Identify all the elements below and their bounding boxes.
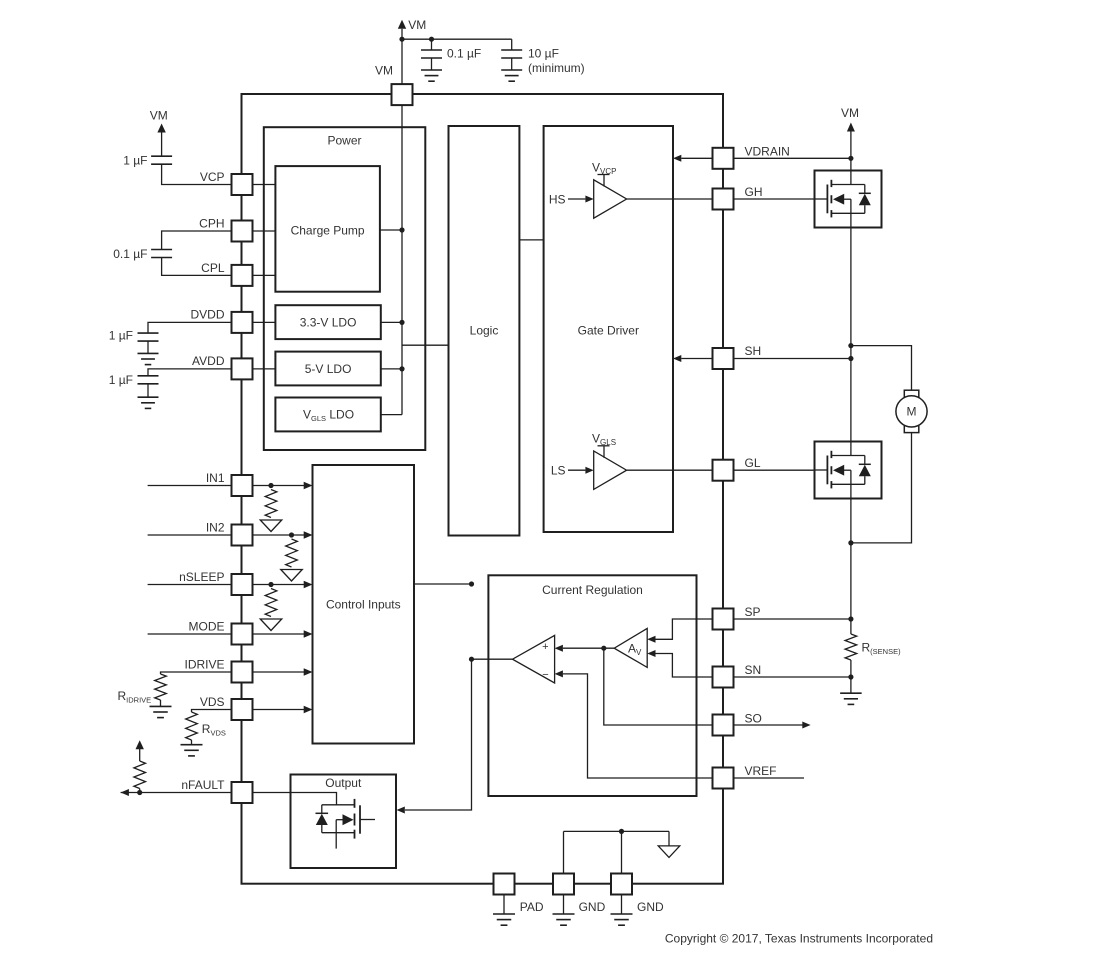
buffer LS driver: [594, 451, 627, 489]
resistor IN2 pulldown: [286, 539, 298, 567]
svg-text:Control Inputs: Control Inputs: [326, 598, 401, 612]
wire SN to sense resistor: [734, 676, 851, 678]
wire IN1 external lead: [148, 485, 231, 487]
ground (open) IN2 pulldown: [281, 570, 303, 582]
svg-text:SH: SH: [745, 344, 762, 358]
arrow VDRAIN into Gate Driver: [673, 155, 681, 162]
pin VM: [392, 84, 413, 105]
wire RIDRIVE to ground: [160, 700, 162, 706]
resistor RSENSE: [845, 634, 857, 660]
block Current Regulation: [488, 575, 696, 796]
wire 5-V LDO output to VM rail: [381, 368, 402, 370]
junction dot motor branch: [848, 343, 853, 348]
arrow SO output: [802, 722, 810, 729]
svg-text:GND: GND: [637, 900, 664, 914]
svg-text:Gate Driver: Gate Driver: [578, 324, 639, 338]
pin VDRAIN: [713, 148, 734, 169]
arrow MODE into Control Inputs: [304, 630, 313, 637]
pin GND (right): [611, 874, 632, 895]
wire AVDD cap to ground: [147, 384, 149, 397]
wire MODE external lead: [148, 633, 231, 635]
arrow VDS into Control Inputs: [304, 706, 313, 713]
svg-text:VM: VM: [408, 18, 426, 32]
arrow AV bottom input: [647, 650, 655, 657]
ground below AVDD cap: [138, 396, 159, 398]
wire GH to FET1 gate: [734, 198, 815, 200]
wire VDS to RVDS: [192, 710, 232, 713]
wire VGLS LDO output to VM rail: [381, 414, 402, 416]
block 3.3-V LDO: [275, 305, 380, 339]
svg-text:PAD: PAD: [520, 900, 544, 914]
arrow into Output block: [397, 807, 405, 814]
wire RSENSE to SN net: [850, 660, 852, 677]
arrow IN2 into Control Inputs: [304, 531, 313, 538]
wire logic to Output block: [405, 659, 472, 810]
svg-text:Power: Power: [327, 134, 361, 148]
ground below 0.1 uF cap: [421, 69, 442, 71]
wire Q2 source to sense net: [850, 499, 852, 620]
svg-text:(minimum): (minimum): [528, 61, 585, 75]
pin SH: [713, 348, 734, 369]
wire VDS pin to Control Inputs: [253, 709, 305, 711]
wire SH to half-bridge: [734, 358, 851, 360]
junction dot comparator output: [469, 657, 474, 662]
wire SH net to Q2 drain: [850, 359, 852, 442]
svg-text:1 µF: 1 µF: [109, 373, 133, 387]
motor M: [904, 390, 919, 397]
wire IN2 pin to Control Inputs: [253, 534, 305, 536]
svg-text:nFAULT: nFAULT: [181, 778, 225, 792]
svg-text:10 µF: 10 µF: [528, 47, 559, 61]
wire IN1 pin to Control Inputs: [253, 485, 305, 487]
wire CPH to flying cap: [162, 231, 231, 250]
capacitor 1 uF (AVDD): [138, 375, 159, 377]
svg-text:GH: GH: [745, 185, 763, 199]
pin VREF: [713, 768, 734, 789]
svg-text:IN1: IN1: [206, 471, 225, 485]
svg-text:VCP: VCP: [200, 170, 225, 184]
wire VM pin to top rail: [401, 29, 403, 84]
svg-text:GL: GL: [745, 456, 761, 470]
wire VGLS rail bar and stem: [598, 445, 610, 447]
pin GL: [713, 460, 734, 481]
wire SP to AV top input: [656, 619, 713, 639]
pin nSLEEP: [232, 574, 253, 595]
wire 3.3-V LDO output to VM rail: [381, 321, 402, 323]
pin CPH: [232, 221, 253, 242]
junction dot 3.3-V LDO output: [399, 320, 404, 325]
transistor Q2 low-side NMOS: [815, 442, 882, 499]
block Gate Driver: [544, 126, 673, 532]
arrow HS input: [585, 196, 593, 203]
svg-text:GND: GND: [579, 900, 606, 914]
junction dot SP net: [848, 616, 853, 621]
wire motor bottom branch: [851, 433, 912, 543]
svg-text:HS: HS: [549, 193, 566, 207]
arrow LS input: [585, 467, 593, 474]
node VM (VCP pull-up arrow): [157, 124, 165, 133]
junction dot IN1 pulldown: [268, 483, 273, 488]
svg-text:0.1 µF: 0.1 µF: [447, 47, 481, 61]
block Power: [264, 127, 426, 450]
svg-text:VGLS LDO: VGLS LDO: [303, 408, 354, 424]
wire GND left to ground: [563, 895, 565, 914]
svg-text:VDS: VDS: [200, 695, 225, 709]
node VM (top supply arrow): [398, 20, 406, 29]
pin CPL: [232, 265, 253, 286]
svg-text:LS: LS: [551, 464, 566, 478]
arrow nFAULT output (left): [121, 789, 129, 796]
resistor nFAULT pull-up: [134, 761, 146, 789]
svg-text:Charge Pump: Charge Pump: [291, 224, 365, 238]
junction dot SO takeoff: [601, 646, 606, 651]
ground below RIDRIVE: [150, 705, 172, 707]
pin PAD: [494, 874, 515, 895]
junction dot control bus: [469, 581, 474, 586]
ground below GND left: [553, 913, 575, 915]
pin SN: [713, 667, 734, 688]
wire AV output to comparator plus: [563, 647, 614, 649]
wire VM to VDRAIN net: [850, 132, 852, 159]
capacitor 10 uF (VM bulk): [511, 39, 513, 50]
wire Control Inputs to logic bus: [414, 583, 472, 585]
pin SP: [713, 609, 734, 630]
junction dot nFAULT: [137, 790, 142, 795]
svg-text:SO: SO: [745, 712, 762, 726]
block 5-V LDO: [275, 352, 380, 386]
junction dot IN2 pulldown: [289, 532, 294, 537]
wire IN2 external lead: [148, 534, 231, 536]
pin SO: [713, 715, 734, 736]
wire SH to gate driver: [681, 358, 712, 360]
pin IDRIVE: [232, 662, 253, 683]
svg-text:VREF: VREF: [745, 764, 777, 778]
svg-text:VM: VM: [841, 106, 859, 120]
svg-text:Current Regulation: Current Regulation: [542, 583, 643, 597]
wire VVCP rail bar and stem: [598, 174, 610, 176]
wire SO external: [734, 724, 803, 726]
wire VREF external lead: [734, 777, 805, 779]
junction dot 5-V LDO output: [399, 366, 404, 371]
resistor RVDS: [186, 712, 198, 740]
svg-text:SN: SN: [745, 663, 762, 677]
wire GND1 to internal ground rail: [563, 831, 565, 874]
wire SN to AV bottom input: [656, 654, 713, 678]
junction dot nSLEEP pulldown: [268, 582, 273, 587]
transistor Output FET (open-drain): [316, 799, 376, 849]
svg-text:VDRAIN: VDRAIN: [745, 144, 790, 158]
arrow IDRIVE into Control Inputs: [304, 668, 313, 675]
wire nFAULT external lead: [121, 792, 231, 794]
block Output: [291, 775, 397, 869]
wire CPL pin to Charge Pump: [253, 274, 276, 276]
svg-text:SP: SP: [745, 605, 761, 619]
svg-text:1 µF: 1 µF: [109, 329, 133, 343]
svg-text:Output: Output: [325, 776, 362, 790]
svg-text:−: −: [542, 669, 548, 681]
pin GND (left): [553, 874, 574, 895]
wire DVDD pin to 3.3-V LDO: [253, 321, 276, 323]
arrow SH into Gate Driver: [673, 355, 681, 362]
pin VCP: [232, 174, 253, 195]
wire comparator output to logic bus: [472, 658, 513, 660]
svg-text:+: +: [542, 641, 548, 653]
chip outer boundary box: [242, 94, 724, 884]
wire top VM rail horizontal: [402, 38, 512, 40]
wire SP to sense resistor: [734, 618, 851, 620]
wire charge pump output to VM rail: [380, 229, 402, 231]
wire power rail to Logic: [402, 344, 449, 346]
svg-text:Logic: Logic: [470, 324, 499, 338]
wire nFAULT pin to Output FET: [253, 793, 337, 805]
capacitor 0.1 uF (VM bypass): [431, 39, 433, 50]
arrow AV top input: [647, 636, 655, 643]
wire DVDD cap to ground: [147, 341, 149, 353]
junction dot SH net: [848, 356, 853, 361]
resistor IN1 pulldown: [265, 490, 277, 518]
pin VDS: [232, 699, 253, 720]
junction dot SN net: [848, 674, 853, 679]
arrow nSLEEP into Control Inputs: [304, 581, 313, 588]
junction dot motor bottom: [848, 540, 853, 545]
pin MODE: [232, 624, 253, 645]
wire GND right to ground: [621, 895, 623, 914]
wire AVDD pin to 5-V LDO: [253, 368, 276, 370]
wire CPH pin to Charge Pump: [253, 230, 276, 232]
block Charge Pump: [275, 166, 380, 292]
op-amp current comparator: [513, 635, 555, 683]
wire motor top branch: [851, 346, 912, 391]
wire VREF to comparator minus: [563, 674, 713, 778]
ground (open) internal: [658, 846, 680, 858]
junction dot VDRAIN net: [848, 156, 853, 161]
wire SP net to RSENSE: [850, 619, 852, 634]
pin nFAULT: [232, 782, 253, 803]
resistor nSLEEP pulldown: [265, 589, 277, 617]
ground below 10 uF cap: [501, 69, 522, 71]
wire VM pin into chip (to power rail): [401, 105, 403, 415]
wire VDRAIN to gate driver: [681, 157, 712, 159]
junction dot VM rail at C1: [429, 37, 434, 42]
wire Q1 source to SH net: [850, 228, 852, 359]
capacitor 1 uF (DVDD): [138, 332, 159, 334]
svg-text:DVDD: DVDD: [190, 308, 224, 322]
transistor Q1 high-side NMOS: [815, 171, 882, 228]
wire DVDD to bypass cap: [148, 322, 231, 333]
pin IN1: [232, 475, 253, 496]
wire PAD to ground: [503, 895, 505, 914]
wire RVDS to ground: [191, 740, 193, 745]
block VGLS LDO: [275, 398, 380, 432]
wire RFAULT to nFAULT net: [139, 789, 141, 793]
buffer HS driver: [594, 180, 627, 218]
resistor RIDRIVE: [155, 674, 167, 700]
svg-text:IN2: IN2: [206, 521, 225, 535]
pin DVDD: [232, 312, 253, 333]
wire C-VCP to VCP pin: [162, 164, 231, 184]
ground below PAD: [493, 913, 515, 915]
ground (open) nSLEEP pulldown: [260, 619, 282, 631]
wire ground rail stem: [668, 831, 670, 846]
wire LS output to GL pin: [627, 469, 713, 471]
svg-text:Copyright © 2017, Texas Instru: Copyright © 2017, Texas Instruments Inco…: [665, 932, 933, 946]
svg-text:MODE: MODE: [189, 620, 225, 634]
svg-text:0.1 µF: 0.1 µF: [113, 247, 147, 261]
wire AVDD to bypass cap: [148, 369, 231, 376]
wire Logic to Gate Driver: [519, 239, 543, 241]
svg-text:AVDD: AVDD: [192, 354, 225, 368]
wire nSLEEP pin to Control Inputs: [253, 584, 305, 586]
ground below RVDS: [181, 744, 203, 746]
wire nSLEEP external lead: [148, 584, 231, 586]
ground below RSENSE: [840, 692, 862, 694]
pin AVDD: [232, 358, 253, 379]
svg-text:CPL: CPL: [201, 261, 225, 275]
wire IDRIVE pin to Control Inputs: [253, 671, 305, 673]
op-amp AV sense amplifier: [614, 628, 647, 667]
capacitor 0.1 uF (charge pump flying): [151, 249, 172, 251]
svg-text:IDRIVE: IDRIVE: [184, 658, 224, 672]
ground below DVDD cap: [138, 352, 159, 354]
wire HS input: [568, 198, 585, 200]
wire IDRIVE to RIDRIVE: [161, 672, 232, 674]
ground (open) IN1 pulldown: [260, 520, 282, 532]
junction dot ground rail: [619, 829, 624, 834]
wire pull-up arrow to RFAULT: [139, 749, 141, 761]
wire internal ground rail: [564, 830, 670, 832]
ground below GND right: [611, 913, 633, 915]
svg-text:M: M: [907, 405, 917, 419]
wire VDRAIN net to Q1 drain: [850, 158, 852, 170]
svg-text:VM: VM: [375, 64, 393, 78]
wire VDRAIN to half-bridge: [734, 157, 851, 159]
block Logic: [449, 126, 520, 536]
pin IN2: [232, 525, 253, 546]
block Control Inputs: [313, 465, 415, 744]
junction dot VM rail left: [399, 37, 404, 42]
svg-text:5-V LDO: 5-V LDO: [305, 362, 352, 376]
wire SN net to ground: [850, 677, 852, 693]
wire GND2 to internal ground rail: [621, 831, 623, 874]
svg-text:1 µF: 1 µF: [123, 154, 147, 168]
svg-text:3.3-V LDO: 3.3-V LDO: [300, 316, 357, 330]
arrow IN1 into Control Inputs: [304, 482, 313, 489]
wire VM arrow to C-VCP: [161, 133, 163, 157]
svg-text:CPH: CPH: [199, 217, 224, 231]
capacitor 1 uF (VCP): [151, 155, 172, 157]
junction dot charge pump output: [399, 227, 404, 232]
wire VCP pin to Charge Pump: [253, 184, 276, 186]
pin GH: [713, 189, 734, 210]
wire GL to FET2 gate: [734, 469, 815, 471]
arrow comparator minus input: [555, 670, 563, 677]
svg-text:VM: VM: [150, 109, 168, 123]
wire HS output to GH pin: [627, 198, 713, 200]
svg-text:nSLEEP: nSLEEP: [179, 570, 224, 584]
node pull-up arrow nFAULT: [136, 740, 144, 749]
wire MODE pin to Control Inputs: [253, 633, 305, 635]
wire SO from amplifier output: [604, 648, 713, 725]
wire LS input: [568, 469, 585, 471]
wire flying cap to CPL: [162, 258, 231, 276]
arrow comparator plus input: [555, 645, 563, 652]
